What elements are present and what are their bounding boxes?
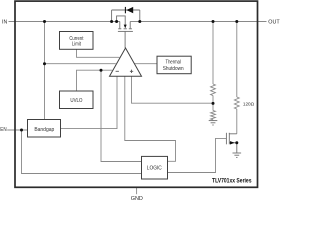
frame border	[15, 1, 258, 187]
wire EN to LOGIC	[22, 130, 142, 174]
wire OUT to R1	[212, 22, 214, 85]
svg-text:EN: EN	[0, 127, 6, 133]
node IN tap	[43, 20, 46, 23]
Q1 channel segment left	[118, 28, 121, 30]
wire error amp to LOGIC	[125, 76, 176, 161]
discharge transistor Q2	[226, 133, 236, 153]
svg-text:UVLO: UVLO	[70, 98, 82, 104]
node UVLO line	[100, 69, 103, 72]
Q1 source contact	[119, 22, 121, 29]
block Thermal Shutdown	[157, 56, 191, 73]
node diode right	[138, 20, 141, 23]
ground under Q2	[233, 153, 242, 157]
Q1 channel segment middle	[124, 28, 127, 30]
op-amp U1 error amplifier	[110, 48, 142, 76]
node EN split	[20, 129, 23, 132]
wire 120 ohm to Q2 drain	[236, 109, 238, 134]
wire IN rail (left)	[9, 21, 120, 23]
node body tie	[115, 20, 118, 23]
svg-text:IN: IN	[2, 19, 7, 25]
Q2 gate bar	[225, 133, 227, 145]
block Bandgap	[28, 120, 61, 138]
wire current limit to error amp	[77, 49, 120, 57]
svg-text:LOGIC: LOGIC	[147, 165, 162, 171]
svg-text:Thermal: Thermal	[166, 60, 181, 66]
body diode D1	[112, 10, 140, 22]
Q2 body arrow	[230, 141, 235, 144]
node diode left	[110, 20, 113, 23]
svg-text:Shutdown: Shutdown	[163, 66, 184, 72]
D1 top line	[112, 9, 140, 11]
wire R1 to tap	[212, 96, 214, 111]
svg-text:GND: GND	[131, 196, 143, 201]
Q1 gate lead to error amp output	[124, 31, 126, 48]
wire GND pin stub	[136, 188, 138, 195]
node OUT R3	[235, 20, 238, 23]
Q1 drain contact	[129, 22, 131, 29]
wire UVLO to error amp	[77, 70, 113, 91]
resistor R1	[211, 84, 216, 96]
wire IN tap down to bandgap	[44, 22, 46, 120]
D1 right leg	[139, 10, 141, 22]
D1 cathode bar	[124, 7, 126, 13]
Q1 body loop	[117, 16, 126, 25]
resistor R3 120ohm	[234, 97, 239, 109]
Q1 body arrow	[124, 25, 127, 29]
Q2 source junction dot	[235, 141, 238, 144]
Q1 gate bar	[118, 30, 133, 32]
wire thermal shutdown to error amp	[135, 63, 158, 65]
D1 triangle	[126, 7, 133, 13]
resistor R2	[211, 111, 216, 120]
wire bandgap to inverting input	[61, 76, 118, 128]
Q2 drain lead	[229, 133, 237, 135]
node divider tap	[212, 102, 215, 105]
wire UVLO node to LOGIC	[101, 70, 142, 161]
svg-text:OUT: OUT	[268, 19, 280, 25]
Q2 channel bar	[228, 133, 230, 145]
Q1 channel segment right	[129, 28, 132, 30]
wire feedback + input to divider tap	[132, 76, 214, 103]
Q2 source lead	[229, 143, 237, 153]
node OUT R1	[212, 20, 215, 23]
wire LOGIC to Q2 gate	[168, 138, 227, 172]
wire R2 to ground	[212, 119, 214, 122]
svg-text:120Ω: 120Ω	[243, 101, 255, 107]
D1 left leg	[111, 10, 113, 22]
wire OUT rail (right)	[130, 21, 266, 23]
svg-text:Limit: Limit	[72, 42, 81, 48]
wire EN lead	[7, 129, 27, 131]
pass transistor Q1	[117, 16, 133, 48]
ground under R2	[209, 121, 218, 125]
wire OUT to 120 ohm resistor	[236, 22, 238, 98]
svg-text:Bandgap: Bandgap	[34, 127, 54, 133]
block UVLO	[60, 91, 94, 109]
block LOGIC	[142, 156, 168, 179]
block Current Limit	[60, 32, 94, 50]
node IN tap amp branch	[43, 62, 46, 65]
svg-text:TLV701xx Series: TLV701xx Series	[212, 178, 252, 184]
wire IN tap to error amp left edge	[45, 63, 116, 65]
